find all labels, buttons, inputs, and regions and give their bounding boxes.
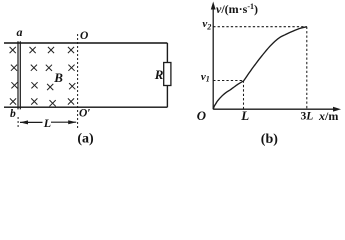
svg-text:L: L bbox=[43, 116, 51, 130]
L dimension arrow right bbox=[51, 120, 76, 124]
field x r2c4 bbox=[68, 65, 74, 71]
field x r2c3 bbox=[46, 65, 52, 71]
L dimension left tick (dashed) bbox=[17, 117, 19, 128]
svg-text:L: L bbox=[240, 108, 249, 123]
wire top rail bbox=[4, 42, 167, 44]
dashed L vertical line bbox=[243, 81, 245, 110]
field x r1c1 bbox=[10, 47, 16, 53]
svg-text:O: O bbox=[197, 109, 206, 123]
svg-text:a: a bbox=[17, 25, 23, 39]
field x r1c4 bbox=[68, 47, 74, 53]
wire right vertical (to resistor) bbox=[166, 43, 168, 107]
field x r4c1 bbox=[10, 98, 16, 104]
field x r4c2 bbox=[31, 98, 37, 104]
svg-text:x/m: x/m bbox=[318, 109, 338, 123]
svg-text:R: R bbox=[154, 67, 164, 82]
v-x curve segment 2 (L to 3L) bbox=[244, 27, 307, 81]
rod ab (double line) bbox=[18, 41, 20, 109]
resistor R box bbox=[164, 63, 171, 86]
field x r3c4 bbox=[69, 83, 75, 89]
field x r3c3 bbox=[47, 84, 53, 90]
field x r2c2 bbox=[31, 65, 37, 71]
svg-text:3L: 3L bbox=[301, 111, 314, 123]
field x r4c4 bbox=[68, 98, 74, 104]
field x r1c2 bbox=[30, 47, 36, 53]
svg-text:O: O bbox=[80, 30, 88, 42]
field x r3c1 bbox=[11, 82, 17, 88]
svg-text:(b): (b) bbox=[261, 132, 278, 146]
wire bottom rail bbox=[4, 106, 167, 108]
svg-text:B: B bbox=[53, 70, 63, 85]
L dimension arrow left bbox=[20, 120, 43, 124]
field x r3c2 bbox=[31, 82, 37, 88]
field x r2c1 bbox=[11, 65, 17, 71]
field x r4c3 bbox=[50, 100, 56, 106]
svg-text:(a): (a) bbox=[77, 131, 94, 146]
dashed v1 level line bbox=[213, 80, 243, 82]
dashed 3L vertical line bbox=[306, 27, 308, 109]
dashed line OO' bbox=[77, 34, 79, 130]
svg-text:O′: O′ bbox=[79, 107, 91, 119]
graph y-axis bbox=[211, 2, 216, 110]
dashed v2 level line bbox=[213, 26, 307, 28]
v-x curve segment 1 (0 to L) bbox=[213, 81, 243, 109]
svg-text:b: b bbox=[10, 108, 16, 120]
field symbols x (grid) bbox=[10, 47, 76, 106]
graph x-axis bbox=[213, 107, 341, 112]
field x r1c3 bbox=[48, 47, 54, 53]
